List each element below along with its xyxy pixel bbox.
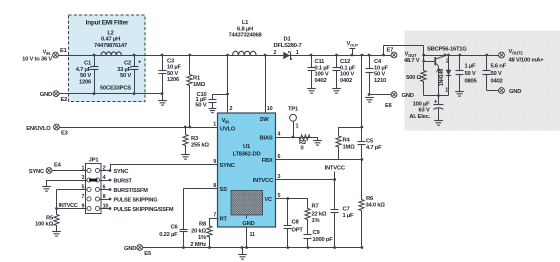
svg-text:100 µF: 100 µF [413, 101, 431, 107]
node INTVCC label [325, 166, 346, 180]
svg-text:C5: C5 [366, 139, 374, 145]
svg-text:E5: E5 [144, 251, 152, 257]
capacitor C14 1uF [456, 55, 478, 92]
U1 exposed pad [207, 191, 287, 219]
wire VOUT to R4C5 [361, 54, 364, 129]
svg-text:E7: E7 [387, 47, 394, 53]
svg-text:1%: 1% [198, 235, 206, 241]
svg-text:1 µF: 1 µF [465, 64, 477, 70]
svg-text:1: 1 [296, 50, 299, 56]
output stage gray box [405, 31, 560, 131]
input EMI filter box [69, 15, 146, 102]
wire U1 GND pin 11 [245, 227, 248, 249]
resistor R8 [190, 218, 212, 248]
svg-text:0.1 µF: 0.1 µF [315, 65, 331, 71]
connector JP1 body [86, 157, 102, 213]
node E2 GND terminal [40, 91, 67, 103]
svg-text:C4: C4 [374, 59, 382, 65]
node VOUT2 output terminal [499, 49, 545, 63]
svg-text:10 V to 36 V: 10 V to 36 V [22, 56, 52, 62]
svg-text:0402: 0402 [340, 78, 352, 84]
resistor R4 [336, 127, 362, 160]
svg-text:C9: C9 [313, 230, 321, 236]
svg-text:GND: GND [40, 92, 52, 98]
svg-text:R8: R8 [199, 222, 207, 228]
svg-text:4.7 µF: 4.7 µF [76, 67, 92, 73]
capacitor C3 [159, 54, 182, 101]
svg-text:Al. Elec.: Al. Elec. [409, 114, 430, 120]
svg-text:74479876147: 74479876147 [94, 43, 127, 49]
svg-text:D1: D1 [284, 36, 292, 42]
svg-text:50 V: 50 V [491, 71, 502, 77]
inductor L1 [228, 20, 262, 56]
svg-text:50 V: 50 V [465, 71, 476, 77]
svg-text:SYNC: SYNC [114, 169, 129, 175]
inductor L2 [94, 30, 127, 55]
ground below R5 [52, 232, 61, 237]
svg-text:4: 4 [103, 175, 106, 181]
svg-text:100 V: 100 V [315, 72, 329, 78]
svg-text:PULSE SKIPPING/SSFM: PULSE SKIPPING/SSFM [114, 207, 174, 213]
svg-text:33 µF: 33 µF [117, 67, 132, 73]
capacitor C6 [159, 225, 187, 248]
op-amp U1 LT8362 body [218, 113, 276, 227]
svg-text:R6: R6 [366, 196, 374, 202]
svg-text:C1: C1 [84, 61, 92, 67]
capacitor C11 [308, 54, 331, 89]
node VOUT label [347, 41, 359, 56]
svg-text:1MΩ: 1MΩ [193, 82, 206, 88]
JP1 pin numbers [82, 165, 109, 209]
svg-text:L1: L1 [242, 20, 249, 26]
svg-text:63 V: 63 V [418, 108, 429, 114]
svg-text:0402: 0402 [491, 79, 503, 85]
svg-text:Input EMI Filter: Input EMI Filter [86, 20, 129, 27]
svg-text:GND: GND [509, 89, 521, 95]
svg-text:PULSE SKIPPING: PULSE SKIPPING [114, 198, 158, 204]
svg-text:GND: GND [124, 246, 136, 252]
U1 pin numbers [213, 106, 280, 238]
svg-text:GND: GND [242, 221, 254, 227]
svg-text:48 V/100 mA+: 48 V/100 mA+ [509, 57, 545, 63]
svg-text:20 kΩ: 20 kΩ [191, 228, 206, 234]
node E6 GND terminal [385, 92, 414, 109]
svg-text:1: 1 [213, 122, 216, 128]
resistor R6 [359, 160, 385, 249]
transistor Q1 SBCP56-16T1G [422, 47, 467, 96]
wire output stage bottom rail [424, 94, 449, 97]
resistor R3 [183, 126, 210, 155]
svg-text:E3: E3 [61, 131, 69, 137]
node JP1 pin 2 SYNC [100, 169, 129, 175]
capacitor C12 [333, 54, 356, 89]
svg-text:UVLO: UVLO [220, 126, 236, 132]
svg-text:0.1 µF: 0.1 µF [340, 65, 356, 71]
node VOUT 48.7V label [404, 52, 420, 64]
svg-text:5.6 nF: 5.6 nF [491, 64, 507, 70]
wire 5.6nF to GND jack [487, 90, 499, 92]
svg-text:3: 3 [82, 175, 85, 181]
svg-text:48.7 V: 48.7 V [404, 58, 420, 64]
JP1 shunt on pins 3-4 [89, 179, 98, 182]
svg-text:VOUT2: VOUT2 [509, 49, 524, 55]
svg-text:SS: SS [220, 187, 228, 193]
svg-text:1: 1 [445, 87, 448, 93]
svg-text:R3: R3 [191, 136, 199, 142]
svg-text:10 µF: 10 µF [374, 65, 389, 71]
node JP1 pin 8 PULSE SKIPPING [100, 198, 158, 204]
svg-text:TP1: TP1 [288, 107, 299, 113]
capacitor C13 100uF [409, 96, 443, 121]
svg-text:R1: R1 [193, 76, 201, 82]
wire EN-UVLO [59, 127, 217, 129]
svg-text:JP1: JP1 [89, 157, 100, 163]
svg-text:0: 0 [300, 146, 303, 152]
wire to output stage [382, 46, 424, 57]
ground below C4 [365, 98, 374, 103]
svg-text:E2: E2 [61, 97, 68, 103]
svg-text:C6: C6 [171, 225, 179, 231]
node GND output terminal [499, 88, 522, 95]
ground below R3 [181, 155, 190, 160]
svg-text:1MΩ: 1MΩ [343, 144, 356, 150]
svg-text:C11: C11 [315, 59, 326, 65]
wire GND rail [143, 246, 362, 249]
svg-text:50 V: 50 V [80, 73, 91, 79]
svg-text:FBX: FBX [262, 158, 273, 164]
svg-text:7: 7 [82, 194, 85, 200]
capacitor C10 [195, 92, 229, 109]
node E1 VIN input terminal [22, 48, 68, 62]
wire FBX [276, 158, 364, 161]
svg-text:0805: 0805 [465, 79, 478, 85]
svg-text:OPT: OPT [292, 227, 304, 233]
wire SS to C6 [184, 189, 218, 230]
ground below JP1 pin 3 [42, 187, 51, 192]
svg-text:LT8362-DD: LT8362-DD [233, 151, 261, 157]
svg-text:BURST/SSFM: BURST/SSFM [114, 188, 149, 194]
wire RT to R8 [210, 218, 218, 220]
svg-text:L2: L2 [107, 30, 113, 36]
svg-text:SYNC: SYNC [29, 169, 45, 175]
svg-text:0402: 0402 [315, 78, 327, 84]
svg-text:50 V: 50 V [167, 71, 178, 77]
capacitor C7 [331, 180, 355, 248]
svg-text:C3: C3 [167, 58, 175, 64]
node JP1 pin 6 BURST/SSFM [100, 188, 149, 194]
capacitor C1 [76, 54, 99, 95]
svg-text:VIN: VIN [222, 118, 230, 124]
svg-text:BIAS: BIAS [260, 136, 273, 142]
capacitor C9 [304, 225, 334, 248]
svg-text:DFLS280-7: DFLS280-7 [274, 43, 302, 49]
svg-text:100 kΩ: 100 kΩ [35, 222, 53, 228]
svg-text:10: 10 [267, 106, 273, 112]
svg-text:E4: E4 [54, 163, 62, 169]
wire EMI ground rail [59, 93, 162, 95]
ground below C10 [209, 109, 217, 113]
svg-text:34.0 kΩ: 34.0 kΩ [366, 203, 386, 209]
svg-text:VC: VC [264, 197, 273, 203]
wire INTVCC to JP1 pin 9 [55, 203, 87, 210]
ground after R2 [313, 137, 322, 145]
svg-text:SBCP56-16T1G: SBCP56-16T1G [427, 47, 467, 53]
svg-text:1000 pF: 1000 pF [313, 237, 334, 243]
ground below 1uF [455, 92, 464, 97]
svg-text:7: 7 [213, 213, 216, 219]
svg-text:50 V: 50 V [120, 73, 131, 79]
capacitor C8 [284, 199, 304, 248]
svg-text:VOUT: VOUT [347, 41, 359, 47]
svg-text:11: 11 [250, 232, 255, 238]
svg-text:GND: GND [402, 93, 414, 99]
wire output top [422, 46, 498, 63]
svg-text:RT: RT [220, 217, 228, 223]
svg-text:10 µF: 10 µF [167, 65, 182, 71]
svg-text:6.8 µH: 6.8 µH [237, 26, 253, 32]
resistor R7 [305, 199, 327, 226]
svg-text:SW: SW [260, 117, 270, 123]
wire VIN to pin 2 [226, 54, 229, 113]
svg-text:INTVCC: INTVCC [253, 178, 274, 184]
wire JP1 pin 5 down [57, 190, 88, 209]
svg-text:VIN: VIN [43, 50, 51, 56]
svg-text:R5: R5 [46, 215, 54, 221]
node JP1 pin 10 PULSE SKIPPING/SSFM [100, 207, 174, 213]
svg-text:255 kΩ: 255 kΩ [191, 142, 209, 148]
svg-text:C2: C2 [124, 61, 131, 67]
svg-text:R7: R7 [312, 203, 319, 209]
node JP1 pin 4 BURST [100, 179, 133, 185]
wire VC [276, 197, 308, 200]
svg-text:8: 8 [103, 194, 106, 200]
svg-text:2: 2 [273, 50, 276, 56]
wire BIAS [276, 136, 318, 139]
capacitor C5 [358, 127, 383, 160]
svg-text:0.47 µH: 0.47 µH [101, 37, 120, 43]
wire JP1 pin 3 to ground [47, 180, 88, 187]
ground below 100uF [434, 121, 443, 126]
svg-text:INTVCC: INTVCC [59, 203, 78, 209]
resistor R1 [187, 54, 206, 129]
svg-text:C8: C8 [292, 219, 300, 225]
wire INTVCC pin [276, 178, 337, 181]
ground below C3 [158, 101, 167, 106]
svg-text:E6: E6 [385, 103, 393, 109]
capacitor C4 [366, 54, 389, 96]
svg-text:1: 1 [296, 124, 299, 130]
ground on GND rail [238, 248, 247, 260]
svg-text:E1: E1 [60, 48, 68, 54]
wire SYNC net to U1 [110, 165, 218, 171]
svg-text:R4: R4 [343, 137, 351, 143]
diode D1 [273, 36, 301, 59]
wire SW node [264, 54, 267, 113]
svg-text:22 kΩ: 22 kΩ [312, 211, 327, 217]
svg-text:1N4148: 1N4148 [439, 69, 445, 87]
node E7 VOUT terminal [387, 47, 397, 58]
svg-text:50 V: 50 V [374, 72, 385, 78]
ground below C12 [332, 89, 341, 94]
capacitor C15 5.6nF [483, 55, 507, 91]
resistor R5 [35, 209, 59, 232]
node E4 SYNC terminal [29, 163, 62, 176]
svg-text:4: 4 [278, 132, 281, 138]
resistor R9 500ohm [406, 62, 426, 96]
svg-text:2: 2 [230, 106, 233, 112]
svg-text:INTVCC: INTVCC [325, 166, 346, 172]
svg-text:C12: C12 [340, 59, 350, 65]
svg-text:1%: 1% [312, 218, 320, 224]
svg-text:50 V: 50 V [195, 102, 207, 108]
resistor R2 [296, 135, 314, 152]
svg-text:500 Ω: 500 Ω [406, 75, 421, 81]
svg-text:SYNC: SYNC [220, 163, 236, 169]
node E5 GND terminal [124, 245, 152, 257]
wire E4 to JP1 pin 1 [52, 170, 87, 172]
svg-text:1206: 1206 [79, 79, 92, 85]
wire VIN rail [58, 55, 391, 57]
svg-text:BURST: BURST [114, 179, 133, 185]
svg-text:50CE33PCS: 50CE33PCS [100, 86, 131, 92]
svg-text:1 µF: 1 µF [343, 213, 355, 219]
svg-text:0.22 µF: 0.22 µF [159, 232, 178, 238]
test point TP1 [288, 107, 299, 138]
svg-text:C7: C7 [343, 207, 350, 213]
svg-text:EN/UVLO: EN/UVLO [26, 126, 51, 132]
diode D2 1N4148 [439, 55, 452, 96]
svg-text:1210: 1210 [374, 78, 386, 84]
node E3 EN/UVLO terminal [26, 124, 68, 136]
svg-text:1206: 1206 [167, 77, 180, 83]
wire C4 to E6 [369, 94, 391, 96]
capacitor C2 [100, 54, 142, 95]
svg-text:4.7 pF: 4.7 pF [366, 145, 382, 151]
svg-text:U1: U1 [243, 144, 251, 150]
svg-text:100 V: 100 V [340, 72, 354, 78]
ground below C11 [307, 89, 316, 94]
svg-text:74437324068: 74437324068 [228, 33, 262, 39]
